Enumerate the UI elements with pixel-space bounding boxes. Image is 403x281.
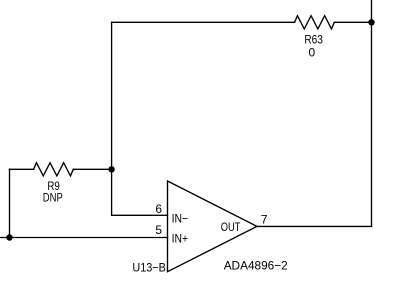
svg-text:7: 7 [261, 212, 268, 226]
wire top horizontal (feedback net to R63) [112, 21, 295, 23]
svg-text:DNP: DNP [43, 191, 63, 205]
svg-text:6: 6 [155, 202, 162, 216]
wire output horizontal [257, 225, 372, 227]
svg-text:IN−: IN− [172, 212, 189, 226]
wire R9 left terminal [10, 168, 34, 170]
wire IN+ horizontal [0, 237, 168, 239]
svg-text:OUT: OUT [221, 220, 241, 234]
wire R63 right terminal [334, 21, 371, 23]
resistor R9 [34, 163, 74, 176]
wire right vertical (output net) [371, 0, 373, 226]
node junction dot output net [368, 19, 374, 25]
wire IN- pin stub [112, 214, 168, 216]
wire left vertical (IN+ net up to R9) [9, 169, 11, 237]
wire left vertical feedback net [111, 22, 113, 215]
resistor R63 [295, 16, 335, 29]
node junction dot IN+ net [6, 234, 12, 240]
svg-text:R63: R63 [304, 32, 323, 46]
svg-text:0: 0 [309, 46, 316, 60]
op-amp U13-B triangle [168, 181, 258, 272]
svg-text:ADA4896−2: ADA4896−2 [224, 258, 288, 272]
svg-text:IN+: IN+ [172, 232, 188, 246]
node junction dot IN- net [108, 166, 114, 172]
svg-text:U13−B: U13−B [132, 261, 166, 275]
wire R9 right terminal [73, 168, 111, 170]
svg-text:5: 5 [155, 223, 162, 237]
